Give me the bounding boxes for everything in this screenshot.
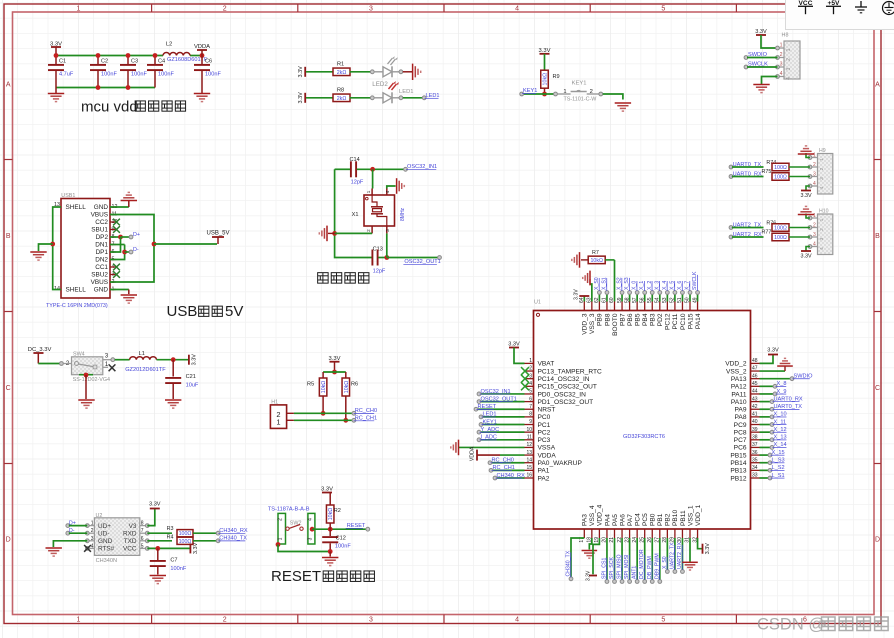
svg-text:PD2: PD2 [657, 313, 664, 326]
svg-text:R3: R3 [167, 526, 174, 532]
svg-text:L1: L1 [139, 351, 145, 357]
svg-text:PB4: PB4 [642, 313, 649, 326]
svg-text:VSS_1: VSS_1 [687, 505, 694, 526]
svg-text:PA12: PA12 [731, 384, 747, 391]
svg-text:1: 1 [529, 358, 532, 364]
svg-text:DP1: DP1 [96, 249, 109, 256]
svg-text:5: 5 [661, 6, 665, 13]
svg-text:39: 39 [752, 427, 758, 433]
svg-text:2: 2 [780, 52, 783, 58]
svg-text:8: 8 [141, 521, 144, 527]
svg-text:1: 1 [786, 48, 792, 51]
svg-text:VSS_4: VSS_4 [589, 505, 596, 526]
svg-text:3.3V: 3.3V [800, 193, 811, 199]
svg-text:PC5: PC5 [642, 513, 649, 526]
svg-text:D+: D+ [133, 232, 140, 238]
svg-text:C3: C3 [131, 59, 138, 65]
svg-text:C2: C2 [101, 59, 108, 65]
svg-text:3: 3 [369, 617, 373, 624]
svg-text:2: 2 [590, 89, 593, 95]
svg-text:LED1: LED1 [399, 89, 414, 95]
svg-text:PB3: PB3 [650, 313, 657, 326]
svg-text:36: 36 [752, 450, 758, 456]
svg-text:3: 3 [780, 62, 783, 68]
svg-text:10kΩ: 10kΩ [344, 381, 350, 394]
svg-text:3.3V: 3.3V [705, 543, 711, 555]
svg-text:R7: R7 [592, 250, 599, 256]
svg-text:2: 2 [813, 223, 816, 229]
svg-text:DP2: DP2 [96, 234, 109, 241]
svg-text:B: B [6, 233, 11, 240]
svg-text:34: 34 [752, 465, 758, 471]
svg-text:10kΩ: 10kΩ [321, 381, 327, 394]
svg-text:100nF: 100nF [335, 543, 351, 549]
svg-text:3: 3 [813, 172, 816, 178]
svg-text:VBUS: VBUS [91, 212, 108, 219]
svg-text:VDD_4: VDD_4 [597, 504, 604, 526]
svg-text:SBU2: SBU2 [91, 272, 108, 279]
svg-text:PB13: PB13 [730, 468, 746, 475]
svg-text:R4: R4 [167, 535, 174, 541]
svg-text:4: 4 [529, 381, 532, 387]
svg-text:C: C [875, 385, 880, 392]
svg-text:3: 3 [813, 232, 816, 238]
svg-text:5: 5 [661, 617, 665, 624]
svg-text:3.3V: 3.3V [149, 502, 161, 508]
svg-text:VDD_2: VDD_2 [725, 361, 747, 368]
svg-text:100nF: 100nF [131, 72, 147, 78]
svg-text:PB0: PB0 [650, 513, 657, 526]
svg-text:8: 8 [529, 412, 532, 418]
svg-text:PC8: PC8 [734, 429, 747, 436]
svg-text:PA14: PA14 [695, 313, 702, 329]
svg-text:SHELL: SHELL [66, 204, 87, 211]
svg-text:RTS#: RTS# [98, 546, 115, 553]
svg-text:2: 2 [278, 518, 284, 521]
svg-text:C6: C6 [205, 59, 212, 65]
svg-text:43: 43 [752, 396, 758, 402]
svg-text:4: 4 [813, 242, 816, 248]
svg-text:2: 2 [819, 167, 825, 170]
svg-text:PC10: PC10 [680, 313, 687, 330]
svg-text:TXD: TXD [124, 538, 137, 545]
svg-text:10kΩ: 10kΩ [590, 258, 603, 264]
svg-text:100nF: 100nF [158, 72, 174, 78]
svg-text:PD1_OSC32_OUT: PD1_OSC32_OUT [538, 399, 594, 406]
svg-text:2: 2 [813, 162, 816, 168]
svg-text:PA13: PA13 [731, 376, 747, 383]
svg-text:UD-: UD- [98, 530, 109, 537]
svg-text:10: 10 [526, 427, 532, 433]
svg-text:VDD_3: VDD_3 [582, 313, 589, 335]
svg-text:45: 45 [752, 381, 758, 387]
svg-text:3.3V: 3.3V [586, 570, 592, 581]
svg-text:VDDA: VDDA [538, 452, 557, 459]
svg-text:R6: R6 [351, 382, 358, 388]
svg-text:44: 44 [752, 389, 758, 395]
svg-text:PC0: PC0 [538, 414, 551, 421]
svg-text:PC2: PC2 [538, 429, 551, 436]
svg-text:4: 4 [786, 77, 792, 80]
svg-text:3.3V: 3.3V [191, 354, 197, 366]
svg-text:4: 4 [819, 247, 825, 250]
svg-text:3: 3 [308, 537, 314, 540]
svg-text:PC9: PC9 [734, 422, 747, 429]
svg-text:R75: R75 [762, 169, 772, 175]
svg-text:LED2: LED2 [372, 81, 388, 88]
svg-text:8MHz: 8MHz [400, 207, 406, 221]
svg-text:U1: U1 [534, 300, 541, 306]
svg-text:16: 16 [526, 473, 532, 479]
svg-text:14: 14 [526, 457, 532, 463]
svg-text:C7: C7 [170, 558, 177, 564]
svg-text:PB1: PB1 [657, 513, 664, 526]
svg-text:PA5: PA5 [612, 514, 619, 526]
svg-text:mcu vdd: mcu vdd [81, 98, 138, 115]
svg-text:TYPE-C 16PIN 2MD(073): TYPE-C 16PIN 2MD(073) [46, 303, 108, 309]
svg-text:USB_5V: USB_5V [206, 231, 229, 237]
svg-text:37: 37 [752, 442, 758, 448]
svg-text:PA10: PA10 [731, 399, 747, 406]
svg-text:47: 47 [752, 366, 758, 372]
svg-text:GND: GND [94, 287, 109, 294]
svg-text:2: 2 [91, 528, 94, 534]
svg-text:BOOT0: BOOT0 [612, 313, 619, 336]
svg-text:GND: GND [98, 538, 113, 545]
svg-text:2: 2 [223, 617, 227, 624]
svg-text:R1: R1 [337, 61, 344, 67]
svg-text:PC1: PC1 [538, 422, 551, 429]
svg-text:1: 1 [780, 43, 783, 49]
svg-text:100Ω: 100Ω [774, 175, 787, 181]
svg-text:1: 1 [77, 617, 81, 624]
svg-text:PB7: PB7 [619, 313, 626, 326]
svg-text:PB8: PB8 [604, 313, 611, 326]
svg-text:RXD: RXD [123, 530, 137, 537]
svg-text:4: 4 [819, 186, 825, 189]
svg-text:6: 6 [141, 536, 144, 542]
svg-text:C21: C21 [186, 374, 196, 380]
svg-text:A: A [6, 82, 11, 89]
svg-text:1: 1 [77, 6, 81, 13]
svg-text:48: 48 [752, 358, 758, 364]
svg-text:1: 1 [91, 521, 94, 527]
svg-text:3.3V: 3.3V [767, 348, 779, 354]
svg-text:VCC: VCC [123, 546, 137, 553]
svg-text:1: 1 [276, 418, 280, 427]
svg-text:2: 2 [366, 229, 371, 232]
svg-text:3: 3 [819, 237, 825, 240]
svg-text:PC14_OSC32_IN: PC14_OSC32_IN [538, 376, 590, 383]
svg-text:PB10: PB10 [672, 510, 679, 526]
svg-text:PA11: PA11 [731, 391, 746, 398]
svg-text:40: 40 [752, 419, 758, 425]
svg-text:46: 46 [752, 373, 758, 379]
svg-text:4: 4 [308, 518, 314, 521]
svg-text:PB2: PB2 [665, 513, 672, 526]
svg-text:1: 1 [366, 190, 371, 193]
svg-text:PB6: PB6 [627, 313, 634, 326]
svg-text:CC2: CC2 [95, 219, 108, 226]
svg-text:VBUS: VBUS [91, 279, 108, 286]
svg-text:VDDA: VDDA [470, 446, 476, 461]
svg-text:TS-1101-C-W: TS-1101-C-W [564, 97, 598, 103]
svg-text:2: 2 [786, 58, 792, 61]
svg-text:PA0_WAKRUP: PA0_WAKRUP [538, 460, 583, 467]
svg-text:4: 4 [813, 181, 816, 187]
svg-text:12pF: 12pF [373, 269, 386, 275]
svg-text:L2: L2 [166, 42, 172, 48]
svg-text:PC3: PC3 [538, 437, 551, 444]
svg-text:CH340N: CH340N [96, 558, 117, 564]
svg-text:DN1: DN1 [95, 242, 108, 249]
svg-text:R2: R2 [334, 508, 341, 514]
svg-text:VSSA: VSSA [538, 445, 556, 452]
svg-text:1: 1 [819, 218, 825, 221]
svg-text:13: 13 [526, 450, 532, 456]
svg-text:3: 3 [529, 373, 532, 379]
svg-text:3.3V: 3.3V [574, 289, 580, 300]
svg-text:PC13_TAMPER_RTC: PC13_TAMPER_RTC [538, 368, 602, 375]
svg-text:3: 3 [385, 229, 390, 232]
svg-text:PA7: PA7 [627, 514, 634, 526]
svg-text:VDD_1: VDD_1 [695, 504, 702, 526]
svg-text:PB5: PB5 [634, 313, 641, 326]
svg-text:VSS_2: VSS_2 [726, 368, 747, 375]
svg-text:1: 1 [278, 537, 284, 540]
svg-text:VSS_3: VSS_3 [589, 313, 596, 334]
svg-text:USB: USB [167, 303, 198, 320]
svg-text:C12: C12 [336, 536, 346, 542]
svg-text:3: 3 [91, 536, 94, 542]
svg-text:PC11: PC11 [672, 313, 679, 329]
svg-text:3: 3 [819, 177, 825, 180]
svg-text:A: A [875, 82, 880, 89]
svg-text:33: 33 [752, 473, 758, 479]
svg-text:C4: C4 [158, 59, 165, 65]
svg-text:R8: R8 [337, 87, 344, 93]
svg-text:NRST: NRST [538, 407, 556, 414]
svg-text:SBU1: SBU1 [91, 227, 108, 234]
svg-text:CSDN @: CSDN @ [757, 616, 825, 634]
svg-text:C1: C1 [59, 59, 66, 65]
svg-text:SHELL: SHELL [66, 287, 87, 294]
svg-text:100nF: 100nF [101, 72, 117, 78]
svg-text:3: 3 [786, 67, 792, 70]
svg-text:B: B [875, 233, 880, 240]
svg-text:5: 5 [141, 543, 144, 549]
svg-text:100Ω: 100Ω [179, 531, 192, 537]
svg-text:PB9: PB9 [597, 313, 604, 326]
svg-text:PA2: PA2 [538, 475, 550, 482]
svg-text:2: 2 [819, 228, 825, 231]
svg-text:PC7: PC7 [734, 437, 747, 444]
svg-text:5V: 5V [225, 303, 243, 320]
svg-text:2kΩ: 2kΩ [337, 70, 347, 76]
svg-text:R9: R9 [553, 74, 560, 80]
svg-text:D-: D- [133, 247, 139, 253]
svg-text:42: 42 [752, 404, 758, 410]
svg-text:D: D [6, 537, 11, 544]
svg-text:R77: R77 [762, 230, 772, 236]
svg-text:PC4: PC4 [634, 513, 641, 526]
svg-text:10kΩ: 10kΩ [543, 73, 549, 86]
svg-text:PA15: PA15 [687, 313, 694, 329]
svg-text:4.7uF: 4.7uF [59, 72, 74, 78]
svg-text:11: 11 [527, 435, 532, 441]
svg-text:PA3: PA3 [582, 514, 589, 526]
svg-text:R5: R5 [307, 382, 314, 388]
svg-text:7: 7 [141, 528, 144, 534]
svg-text:PA6: PA6 [619, 514, 626, 526]
svg-text:PB15: PB15 [730, 452, 746, 459]
svg-text:38: 38 [752, 435, 758, 441]
svg-text:V3: V3 [129, 523, 137, 530]
svg-text:CC1: CC1 [95, 264, 108, 271]
svg-text:VBAT: VBAT [538, 361, 555, 368]
svg-text:PA4: PA4 [604, 514, 611, 526]
svg-text:2: 2 [529, 366, 532, 372]
svg-text:3.3V: 3.3V [800, 254, 811, 260]
svg-text:PD0_OSC32_IN: PD0_OSC32_IN [538, 391, 587, 398]
svg-text:41: 41 [752, 412, 758, 418]
svg-text:X1: X1 [352, 212, 359, 218]
svg-text:100Ω: 100Ω [774, 226, 787, 232]
svg-text:4: 4 [515, 617, 519, 624]
svg-text:3: 3 [369, 6, 373, 13]
svg-text:3.3V: 3.3V [298, 92, 304, 104]
svg-text:2kΩ: 2kΩ [337, 96, 347, 102]
svg-text:PB14: PB14 [730, 460, 746, 467]
svg-text:15: 15 [526, 465, 532, 471]
svg-text:10uF: 10uF [186, 383, 199, 389]
svg-text:RESET: RESET [271, 568, 321, 585]
svg-text:GND: GND [94, 204, 109, 211]
svg-text:KEY1: KEY1 [572, 81, 587, 87]
svg-text:PA9: PA9 [735, 407, 747, 414]
svg-text:H9: H9 [819, 148, 826, 154]
svg-text:9: 9 [529, 419, 532, 425]
svg-text:4: 4 [515, 6, 519, 13]
svg-text:35: 35 [752, 457, 758, 463]
svg-text:100nF: 100nF [205, 72, 221, 78]
svg-text:100Ω: 100Ω [774, 165, 787, 171]
svg-text:PC15_OSC32_OUT: PC15_OSC32_OUT [538, 384, 597, 391]
svg-text:5: 5 [529, 389, 532, 395]
svg-text:GD32F303RCT6: GD32F303RCT6 [623, 434, 665, 440]
svg-text:PC12: PC12 [665, 313, 672, 330]
svg-text:DN2: DN2 [95, 257, 108, 264]
svg-text:100Ω: 100Ω [774, 235, 787, 241]
svg-text:7: 7 [529, 404, 532, 410]
svg-text:4: 4 [385, 190, 390, 193]
svg-text:UD+: UD+ [98, 523, 111, 530]
svg-text:3.3V: 3.3V [298, 66, 304, 78]
svg-text:PA8: PA8 [735, 414, 747, 421]
svg-text:TS-1187A-B-A-B: TS-1187A-B-A-B [268, 507, 310, 513]
svg-text:1: 1 [819, 158, 825, 161]
svg-text:SS-12D02-VG4: SS-12D02-VG4 [73, 377, 110, 383]
svg-text:H10: H10 [819, 209, 829, 215]
svg-text:4: 4 [780, 71, 783, 77]
svg-text:4: 4 [91, 543, 94, 549]
svg-text:2: 2 [223, 6, 227, 13]
svg-text:GZ2012D601TF: GZ2012D601TF [125, 367, 166, 373]
svg-text:PB12: PB12 [730, 475, 746, 482]
svg-text:H8: H8 [782, 33, 789, 39]
svg-text:D: D [875, 537, 880, 544]
svg-text:100nF: 100nF [170, 566, 186, 572]
svg-text:PB11: PB11 [680, 510, 687, 526]
svg-text:PA1: PA1 [538, 468, 550, 475]
svg-text:C: C [6, 385, 11, 392]
svg-text:12: 12 [526, 442, 532, 448]
svg-text:6: 6 [529, 396, 532, 402]
svg-text:PC6: PC6 [734, 445, 747, 452]
svg-text:3.3V: 3.3V [193, 542, 199, 554]
svg-text:12pF: 12pF [351, 180, 364, 186]
